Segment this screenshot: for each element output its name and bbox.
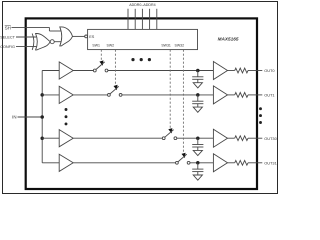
svg-text:OUT1: OUT1 — [264, 93, 274, 98]
resistor R30 — [235, 136, 248, 141]
ellipsis: omitted input channels — [65, 108, 68, 111]
wire: bus to input buffer A0 — [42, 70, 59, 72]
svg-text:SW31: SW31 — [161, 44, 171, 48]
wire: dashed control line SW32 from decoder — [182, 50, 184, 153]
svg-text:OUT31: OUT31 — [264, 160, 277, 165]
wire: dashed control line SW1 from decoder — [100, 50, 102, 61]
node: hold cap junction row 1 — [196, 93, 200, 97]
wire: control arrowhead onto switch SW31 arm — [168, 128, 172, 133]
wire: bus to input buffer A1 — [42, 94, 59, 96]
ground — [193, 150, 202, 155]
wire: control arrowhead onto switch SW1 arm — [99, 60, 103, 65]
ground — [193, 107, 202, 112]
ES enable bubble — [85, 35, 88, 38]
op-amp output buffer B1 — [213, 86, 227, 104]
wire: resistor R1 to OUT1 pin through border — [248, 94, 262, 96]
XNOR output bubble — [50, 40, 54, 44]
ellipsis: omitted output pins — [259, 107, 262, 110]
svg-text:OUT30: OUT30 — [264, 136, 277, 141]
wire: switch to hold node and output buffer B30 — [177, 137, 214, 139]
wire: SH input line with jog into OR gate — [12, 26, 50, 28]
wires: address bus ADDR0-ADDR4 into decoder — [127, 9, 129, 30]
ground — [193, 83, 202, 88]
wire: control arrowhead onto switch SW2 arm — [114, 85, 118, 90]
wire: switch to hold node and output buffer B31 — [190, 162, 213, 164]
switch decoder box — [88, 29, 198, 49]
switch SW1 — [93, 62, 108, 72]
svg-text:SH: SH — [5, 25, 11, 30]
gate U1: 2-input XNOR — [36, 34, 51, 50]
wire: resistor R30 to OUT30 pin through border — [248, 137, 262, 139]
wire: input buffer A30 to switch SW left contact — [73, 137, 162, 139]
capacitor C31 (hold) — [192, 163, 203, 175]
wire: bus to input buffer A31 — [42, 162, 59, 164]
op-amp output buffer B0 — [213, 62, 227, 80]
op-amp input buffer A31 — [59, 154, 73, 171]
op-amp output buffer B31 — [213, 154, 227, 172]
svg-text:MAX5165: MAX5165 — [218, 36, 239, 41]
ellipsis: omitted switch control lines — [131, 58, 134, 61]
node: hold cap junction row 30 — [196, 136, 200, 140]
gate U2: 2-input OR — [60, 27, 73, 46]
svg-text:IN: IN — [12, 115, 16, 120]
wire: input buffer A1 to switch SW left contact — [73, 94, 107, 96]
wire: output buffer B0 to resistor R0 — [228, 70, 235, 72]
capacitor C30 (hold) — [192, 138, 203, 150]
wire: CONFIG input line to XNOR — [16, 45, 36, 47]
wire: switch to hold node and output buffer B1 — [122, 94, 213, 96]
wire: SELECT input line to XNOR — [16, 36, 36, 38]
wire: XNOR output to OR gate lower input — [54, 41, 61, 43]
capacitor C1 (hold) — [192, 95, 203, 107]
svg-text:SW1: SW1 — [92, 44, 100, 48]
node: hold cap junction row 0 — [196, 69, 200, 73]
wire: IN vertical distribution bus — [41, 71, 43, 163]
switch SW32 — [176, 154, 191, 164]
svg-text:ES: ES — [89, 35, 95, 39]
node: bus junction row 3 — [40, 136, 44, 140]
wire: input buffer A0 to switch SW left contact — [73, 70, 93, 72]
wire: output buffer B1 to resistor R1 — [228, 94, 235, 96]
switch SW2 — [108, 86, 123, 96]
wire: OR gate output to ES bubble — [73, 35, 85, 37]
resistor R1 — [235, 93, 248, 98]
node: bus junction row 2 — [40, 93, 44, 97]
svg-text:OUT0: OUT0 — [264, 68, 275, 73]
op-amp output buffer B30 — [213, 129, 227, 147]
capacitor C0 (hold) — [192, 71, 203, 83]
ground — [193, 175, 202, 180]
wire: input buffer A31 to switch SW left contact — [73, 162, 175, 164]
wire: switch to hold node and output buffer B0 — [108, 70, 213, 72]
resistor R0 — [235, 68, 248, 73]
wire: output buffer B30 to resistor R30 — [228, 137, 235, 139]
wire: output buffer B31 to resistor R31 — [228, 162, 235, 164]
node: hold cap junction row 31 — [196, 161, 200, 165]
svg-text:SELECT: SELECT — [0, 35, 15, 39]
IC outline MAX5165 — [26, 18, 257, 189]
wire: control arrowhead onto switch SW32 arm — [182, 153, 186, 158]
wire: resistor R0 to OUT0 pin through border — [248, 70, 262, 72]
op-amp input buffer A0 — [59, 62, 73, 79]
wire: bus to input buffer A30 — [42, 137, 59, 139]
wire: IN input line to bus — [18, 116, 43, 118]
wire: dashed control line SW31 from decoder — [169, 50, 171, 129]
wire: resistor R31 to OUT31 pin through border — [248, 162, 262, 164]
op-amp input buffer A1 — [59, 86, 73, 103]
resistor R31 — [235, 160, 248, 165]
wire: dashed control line SW2 from decoder — [114, 50, 116, 85]
svg-text:ADDR0–ADDR4: ADDR0–ADDR4 — [129, 3, 155, 7]
switch SW31 — [162, 130, 177, 140]
node: bus junction IN — [40, 115, 44, 119]
svg-text:CONFIG: CONFIG — [0, 45, 15, 49]
svg-text:SW2: SW2 — [107, 44, 115, 48]
op-amp input buffer A30 — [59, 130, 73, 147]
svg-text:SW32: SW32 — [175, 44, 185, 48]
